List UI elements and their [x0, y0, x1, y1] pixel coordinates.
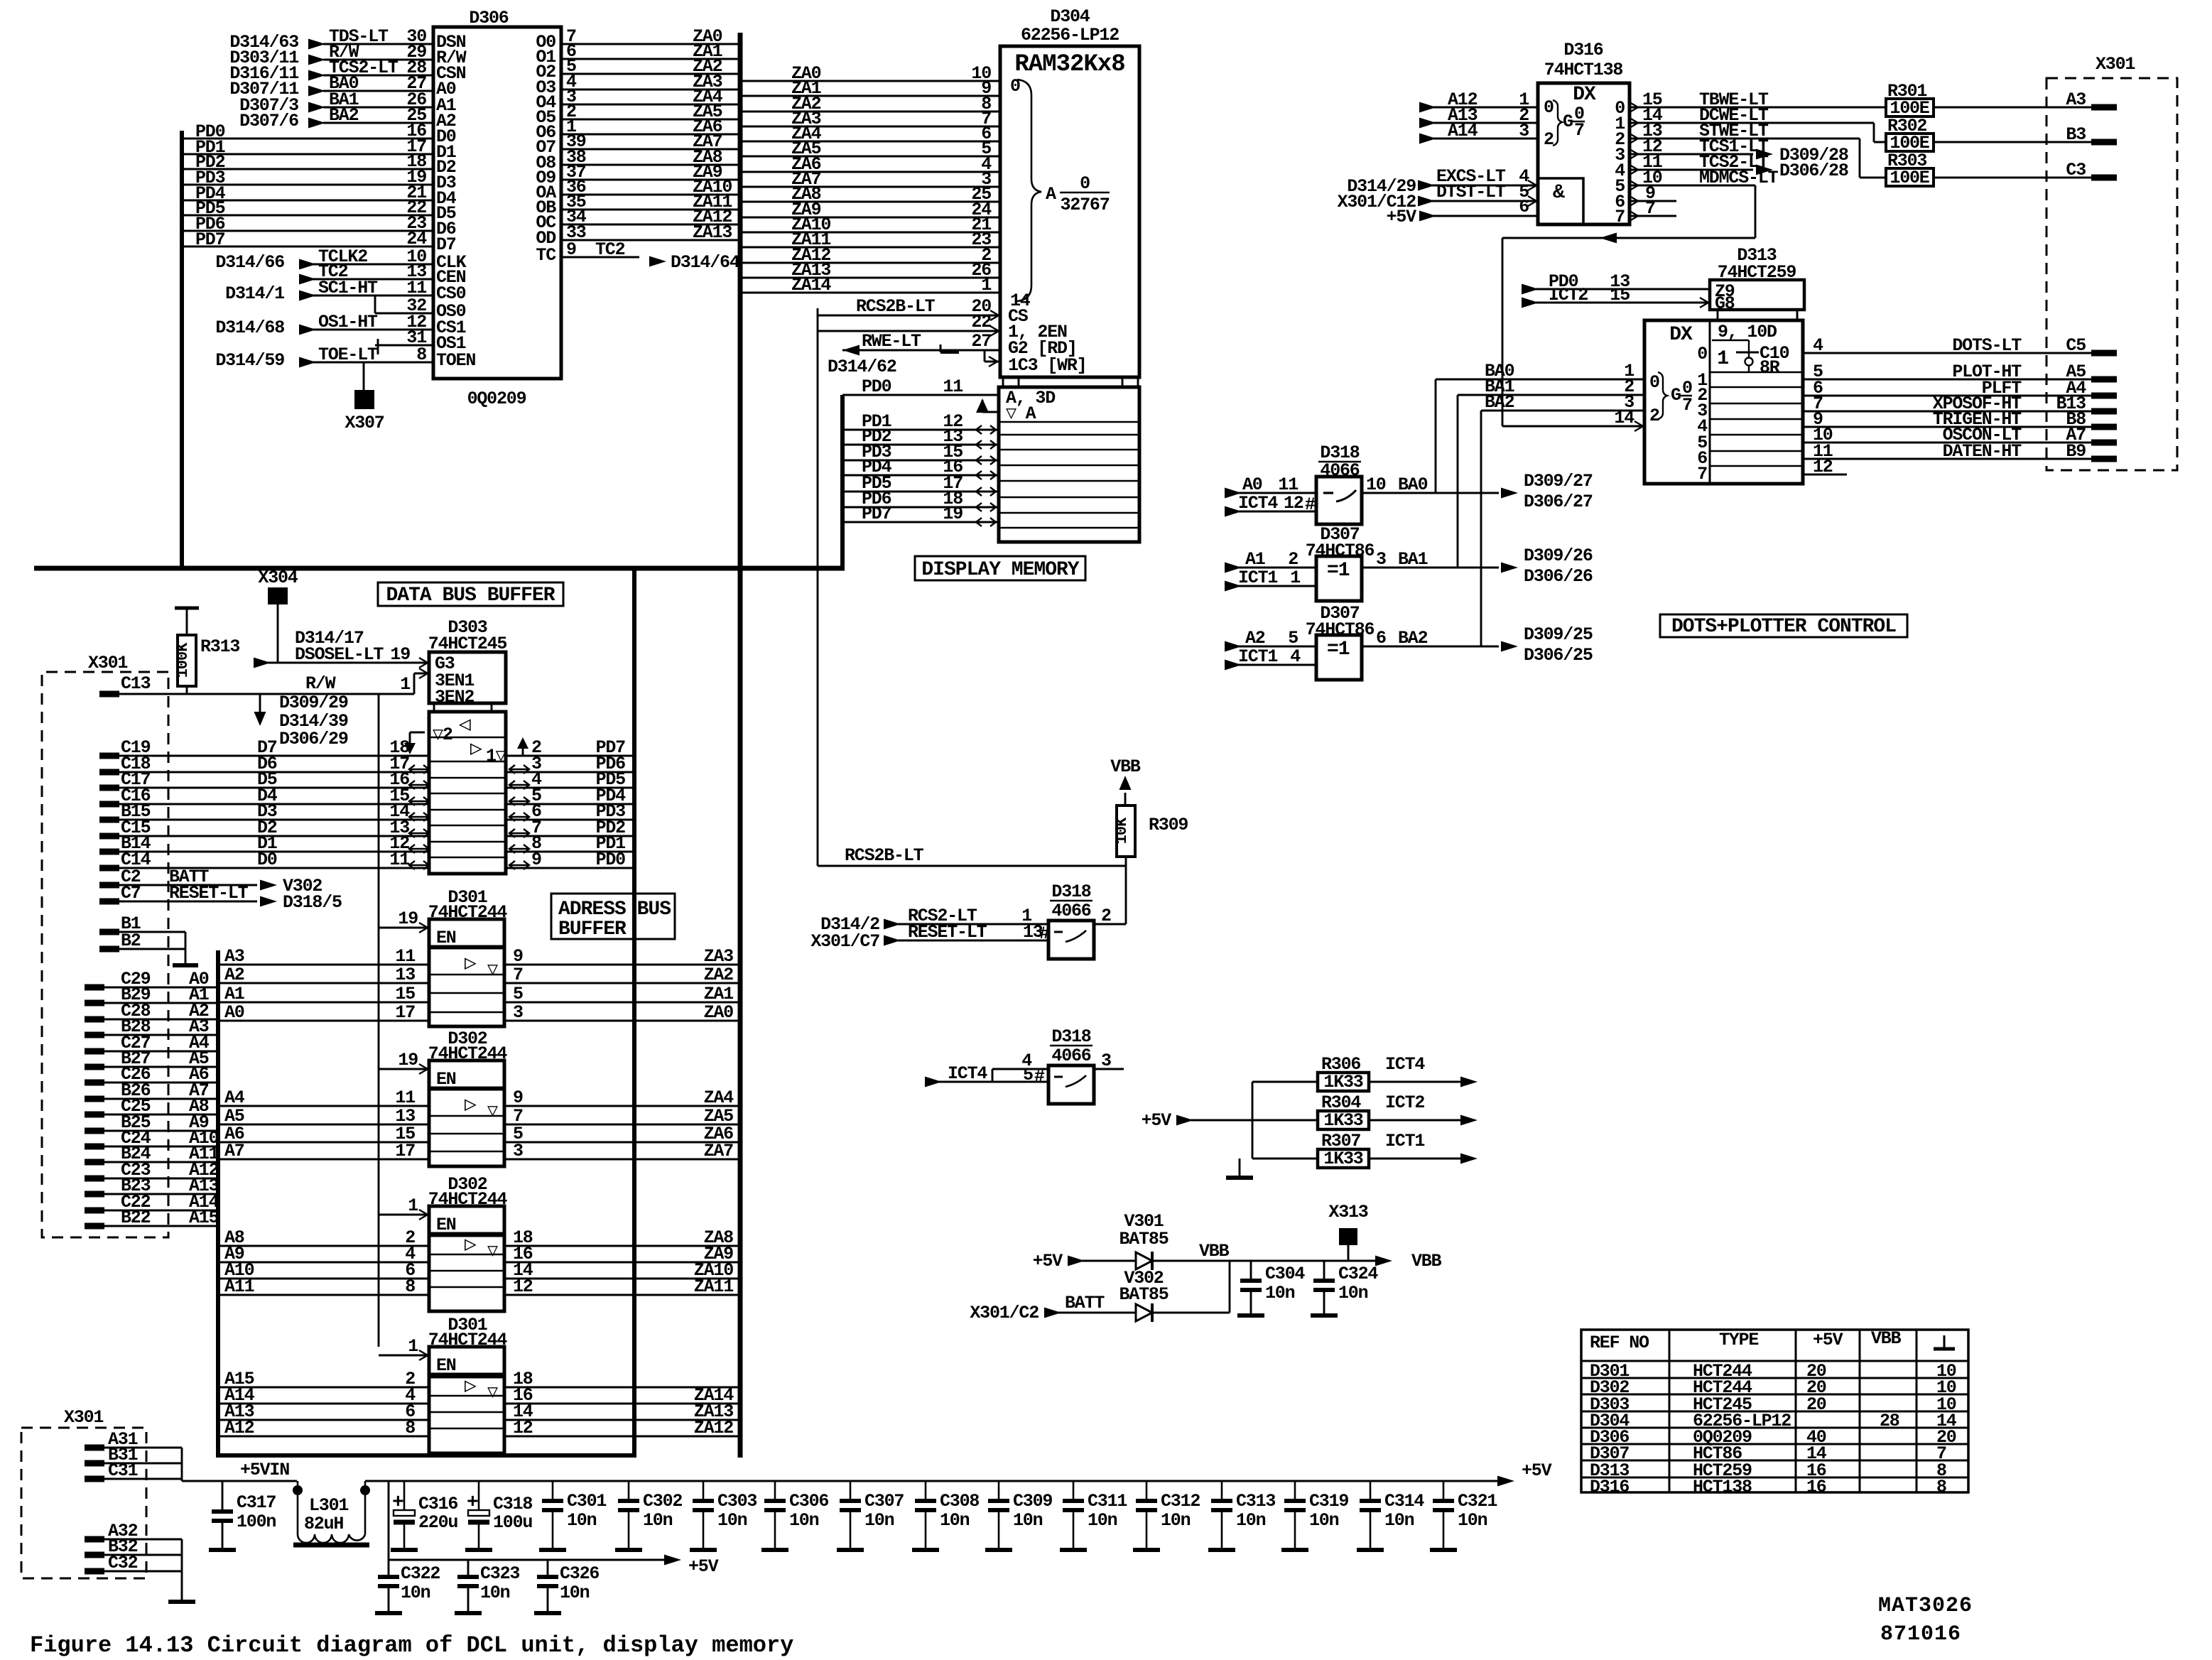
- svg-text:X304: X304: [258, 568, 298, 588]
- svg-text:D309/25: D309/25: [1524, 624, 1593, 645]
- svg-text:D309/27: D309/27: [1524, 471, 1593, 492]
- wire OS1 to D306 pin 31 (OS1): [375, 327, 466, 354]
- svg-text:D306/29: D306/29: [279, 729, 348, 749]
- connector pin X301/C26 (A6): [85, 1064, 218, 1085]
- svg-text:A1: A1: [1245, 549, 1265, 570]
- wire BA1 to D306 pin 26 (A1): [239, 89, 456, 116]
- wire EXCS-LT to D316 pin 4: [1347, 166, 1538, 197]
- svg-text:A7: A7: [224, 1141, 244, 1161]
- svg-text:7: 7: [1615, 207, 1625, 227]
- svg-text:C326: C326: [560, 1563, 599, 1584]
- D304 address brace and range 0..32767: [1010, 76, 1110, 311]
- wire A2 to D301 pin 13 -> ZA2: [218, 965, 740, 985]
- svg-text:10n: 10n: [1265, 1283, 1295, 1303]
- svg-text:VBB: VBB: [1110, 756, 1141, 777]
- D304 PD0 address-clock arrow: [976, 398, 999, 413]
- svg-text:7: 7: [1697, 464, 1707, 484]
- svg-text:DX: DX: [1669, 324, 1693, 346]
- svg-text:ZA4: ZA4: [704, 1087, 734, 1108]
- svg-text:Figure 14.13 Circuit diagram o: Figure 14.13 Circuit diagram of DCL unit…: [30, 1632, 793, 1659]
- wire A6 to D302 pin 15 -> ZA6: [218, 1124, 740, 1144]
- svg-text:BA0: BA0: [1398, 474, 1428, 495]
- svg-text:=1: =1: [1327, 560, 1350, 582]
- wire ZA9 from D306 pin 37 (O9): [536, 162, 740, 188]
- svg-text:L301: L301: [309, 1495, 348, 1516]
- wire PD3 to D306 pin 19 (D3): [182, 167, 456, 193]
- svg-text:X301/C2: X301/C2: [970, 1303, 1039, 1323]
- svg-text:ICT4: ICT4: [948, 1063, 987, 1084]
- wire TOE-LT to D306 pin 8 (TOEN): [215, 345, 475, 371]
- svg-text:62256-LP12: 62256-LP12: [1021, 25, 1119, 45]
- wire TBWE-LT D316 pin 15 to R301: [1630, 89, 1886, 112]
- connector X301 (top right, dashed): [2046, 54, 2177, 470]
- wire to D304 pin 22 (1,2EN): [818, 312, 1067, 342]
- svg-text:D306/27: D306/27: [1524, 492, 1593, 512]
- svg-text:1: 1: [408, 1195, 418, 1216]
- svg-text:3: 3: [513, 1141, 523, 1161]
- connector pin X301/C32: [85, 1553, 182, 1573]
- svg-text:#: #: [1039, 923, 1050, 944]
- resistor R304 1K33: [1318, 1092, 1369, 1131]
- svg-text:▽: ▽: [487, 960, 498, 980]
- svg-text:1: 1: [1717, 348, 1728, 370]
- svg-text:A: A: [1046, 184, 1056, 205]
- svg-text:▽: ▽: [487, 1101, 498, 1122]
- svg-text:X301: X301: [64, 1407, 103, 1428]
- wire ZA7 to D304 pin 3: [740, 169, 1000, 190]
- capacitor C309 10n: [985, 1481, 1052, 1550]
- resistor R302 100E: [1886, 116, 1934, 153]
- connector pin X301/B13: [2056, 394, 2117, 414]
- wire R/W branch arrow down: [254, 693, 348, 749]
- svg-text:TOEN: TOEN: [436, 350, 475, 371]
- svg-text:RCS2B-LT: RCS2B-LT: [845, 845, 924, 866]
- svg-text:A14: A14: [1448, 121, 1478, 141]
- svg-text:▷: ▷: [465, 953, 477, 975]
- capacitor C323 10n: [455, 1560, 519, 1613]
- svg-text:11: 11: [943, 376, 963, 397]
- svg-text:C312: C312: [1161, 1491, 1200, 1512]
- svg-text:15: 15: [395, 984, 415, 1004]
- svg-text:▽: ▽: [487, 1241, 498, 1262]
- wire TRIGEN-HT D313 pin 9 to X301/B8: [1803, 409, 2091, 430]
- wire ZA1 to D304 pin 9: [740, 78, 1000, 99]
- wire R302 to X301 pin B3: [1934, 141, 2097, 143]
- svg-text:C306: C306: [789, 1491, 828, 1512]
- svg-text:A0: A0: [1242, 474, 1262, 495]
- svg-text:A0: A0: [224, 1002, 244, 1023]
- svg-text:D309/29: D309/29: [279, 693, 348, 713]
- svg-text:D309/26: D309/26: [1524, 546, 1593, 566]
- svg-text:MDMCS-LT: MDMCS-LT: [1699, 168, 1779, 188]
- wire TCS1-LT D316 pin 12 to D309/28: [1630, 136, 1848, 166]
- svg-text:#: #: [1305, 494, 1316, 515]
- wire A1 to D301 pin 15 -> ZA1: [218, 984, 740, 1004]
- svg-text:19: 19: [398, 908, 418, 929]
- wire D2/PD2 through D303 pins 13/7 from X301/C15: [99, 818, 634, 838]
- svg-text:ICT4: ICT4: [1385, 1054, 1425, 1075]
- svg-text:X301/C7: X301/C7: [810, 931, 879, 952]
- wire A12 to D316 pin 1: [1419, 89, 1538, 113]
- svg-text:11: 11: [1278, 474, 1298, 495]
- svg-text:D306/25: D306/25: [1524, 645, 1593, 666]
- svg-text:D304: D304: [1050, 6, 1090, 27]
- connector pin X301/B26 (A7): [85, 1080, 218, 1101]
- svg-text:◁: ◁: [458, 715, 471, 737]
- analog switch D318 4066 (BA0): [1316, 443, 1362, 524]
- wire +5V sub-rail: [389, 1481, 719, 1577]
- bus horizontal bottom link: [218, 1453, 636, 1458]
- figure caption: [30, 1632, 793, 1659]
- wire ZA3 from D306 pin 4 (O3): [536, 72, 740, 98]
- svg-text:REF NO: REF NO: [1590, 1333, 1649, 1353]
- svg-text:12: 12: [1284, 493, 1303, 514]
- wire +5V to V301: [1033, 1251, 1136, 1271]
- IC D303 74HCT245 control box: [428, 617, 507, 712]
- wire A15 to D301 pin 2 -> bus: [218, 1369, 740, 1389]
- IC D304 62256-LP12 RAM32Kx8 box: [1000, 6, 1139, 377]
- diode V302 BAT85: [1119, 1268, 1168, 1322]
- wire A10 to D302 pin 6 -> ZA10: [218, 1260, 740, 1281]
- capacitor C324 10n: [1311, 1261, 1378, 1315]
- wire BA1 to D313 pin 2: [1458, 376, 1644, 397]
- svg-text:ZA3: ZA3: [704, 946, 734, 967]
- wire TCS2-LT to D306 pin 28 (CSN): [229, 58, 465, 84]
- wire ZA3 to D304 pin 7: [740, 109, 1000, 129]
- svg-text:13: 13: [395, 965, 415, 985]
- wire tie CS1-OS1: [377, 339, 379, 354]
- wire D5/PD5 through D303 pins 16/4 from X301/C17: [99, 769, 634, 790]
- svg-text:D318: D318: [1051, 881, 1090, 902]
- svg-text:19: 19: [398, 1050, 418, 1070]
- svg-text:10n: 10n: [1384, 1510, 1414, 1531]
- svg-text:10n: 10n: [717, 1510, 747, 1531]
- capacitor C302 10n: [615, 1481, 682, 1550]
- wire BA2 from D307 pin 6: [1362, 411, 1593, 666]
- IC D302 74HCT244: [428, 1029, 508, 1166]
- wire ZA10 from D306 pin 36 (OA): [536, 177, 740, 203]
- svg-text:RESET-LT: RESET-LT: [908, 922, 987, 943]
- drawing number MAT3026 871016: [1878, 1594, 1973, 1647]
- test point X313: [1328, 1202, 1367, 1261]
- wire A12 to D301 pin 8 -> ZA12: [218, 1418, 740, 1438]
- svg-text:TC: TC: [536, 245, 556, 266]
- svg-text:C311: C311: [1088, 1491, 1127, 1512]
- svg-text:8: 8: [416, 345, 426, 365]
- svg-text:10n: 10n: [401, 1583, 430, 1603]
- svg-text:PD0: PD0: [862, 376, 891, 397]
- svg-text:D318/5: D318/5: [283, 892, 342, 913]
- wire A14 to D316 pin 3: [1419, 121, 1538, 144]
- wire R303 to X301 pin C3: [1934, 177, 2097, 179]
- svg-text:D316: D316: [1563, 40, 1603, 60]
- wire ZA2 from D306 pin 5 (O2): [536, 56, 740, 82]
- connector pin X301/B27 (A5): [85, 1048, 218, 1069]
- svg-text:A4: A4: [224, 1087, 245, 1108]
- svg-text:▽ A: ▽ A: [1006, 403, 1036, 424]
- svg-text:▷: ▷: [465, 1376, 477, 1398]
- svg-text:DX: DX: [1573, 84, 1596, 106]
- svg-text:ZA1: ZA1: [704, 984, 734, 1004]
- svg-text:0: 0: [1080, 173, 1090, 194]
- svg-text:7: 7: [1682, 395, 1692, 416]
- wire +5V to R304/R306/R307: [1142, 1082, 1318, 1159]
- svg-text:7: 7: [513, 965, 523, 985]
- svg-text:10K: 10K: [1113, 817, 1131, 844]
- capacitor C322 10n: [375, 1560, 440, 1613]
- svg-text:D0: D0: [257, 850, 277, 870]
- capacitor C314 10n: [1357, 1481, 1424, 1550]
- svg-text:A12: A12: [224, 1418, 254, 1438]
- wire TCLK2 to D306 pin 10 (CLK): [215, 246, 466, 273]
- svg-text:9: 9: [513, 946, 523, 967]
- bus PD horizontal: [34, 566, 845, 571]
- wire tie CS0-OS0: [374, 295, 376, 313]
- connector pin X301/C22 (A14): [85, 1192, 219, 1213]
- D313 select brace G 0/7: [1614, 372, 1692, 431]
- wire TC2 from D306 pin 9 (TC) to D314/64: [536, 239, 739, 273]
- svg-text:A15: A15: [189, 1208, 219, 1228]
- connector pin X301/B29 (A1): [85, 984, 218, 1005]
- wire PD2 to D304 pin 13: [842, 426, 999, 449]
- svg-text:BUFFER: BUFFER: [558, 918, 627, 940]
- svg-text:100E: 100E: [1890, 168, 1929, 188]
- svg-text:BA2: BA2: [329, 105, 359, 126]
- wire PD2 to D306 pin 18 (D2): [182, 151, 456, 178]
- svg-text:C304: C304: [1265, 1264, 1305, 1284]
- svg-text:ZA14: ZA14: [791, 275, 831, 295]
- IC D302 74HCT244: [428, 1174, 508, 1311]
- svg-text:VBB: VBB: [1199, 1241, 1230, 1262]
- connector pin X301/C23 (A12): [85, 1160, 219, 1181]
- IC D316 74HCT138 box: [1538, 40, 1630, 224]
- wire DSOSEL-LT to D303 pin 19: [254, 628, 429, 668]
- D304 data register box: [999, 387, 1139, 542]
- svg-text:+5V: +5V: [1033, 1251, 1063, 1271]
- bus PD vertical (right of RAM): [840, 395, 845, 570]
- wire ZA0 to D304 pin 10: [740, 63, 1000, 84]
- analog switch D318 4066 (RCS2): [1048, 881, 1094, 959]
- svg-text:8: 8: [1936, 1477, 1946, 1497]
- wire A0 to D301 pin 17 -> ZA0: [218, 1002, 740, 1023]
- test point X307: [345, 362, 384, 433]
- svg-text:HCT138: HCT138: [1693, 1477, 1752, 1497]
- connector pin X301/B22 (A15): [85, 1208, 219, 1228]
- D316 pin 7 stub: [1630, 198, 1676, 221]
- svg-text:R313: R313: [200, 636, 239, 657]
- svg-text:3: 3: [513, 1002, 523, 1023]
- wire ZA11 from D306 pin 35 (OB): [536, 192, 740, 218]
- svg-text:11: 11: [389, 850, 409, 870]
- wire X301 A32/B32/C32 to ground: [168, 1539, 195, 1602]
- svg-text:16: 16: [1806, 1477, 1826, 1497]
- svg-text:19: 19: [943, 504, 963, 524]
- wire EN to D302 pin 19: [379, 1050, 429, 1074]
- connector pin X301/C3: [2066, 160, 2117, 180]
- svg-text:C324: C324: [1338, 1264, 1378, 1284]
- svg-text:10n: 10n: [480, 1583, 510, 1603]
- label DISPLAY MEMORY: [915, 556, 1085, 581]
- svg-text:EN: EN: [436, 1069, 456, 1090]
- capacitor C307 10n: [837, 1481, 904, 1550]
- wire RCS2-LT to D318 pin 1: [820, 906, 1048, 935]
- svg-text:D306/26: D306/26: [1524, 566, 1593, 587]
- svg-text:D307/6: D307/6: [239, 111, 298, 131]
- wire BA0 from D318 pin 10: [1362, 379, 1593, 512]
- wire RESET-LT X301/C7 to D318/5: [99, 883, 342, 913]
- svg-text:7: 7: [1574, 120, 1584, 141]
- svg-text:R309: R309: [1149, 815, 1188, 835]
- resistor R306 1K33: [1318, 1054, 1369, 1092]
- svg-text:D314/68: D314/68: [215, 318, 284, 338]
- svg-text:+5V: +5V: [688, 1556, 719, 1577]
- wire PD4 to D304 pin 16: [842, 457, 999, 479]
- wire ZA11 to D304 pin 23: [740, 229, 1000, 250]
- wire ZA7 from D306 pin 39 (O7): [536, 131, 740, 158]
- svg-text:0: 0: [1544, 97, 1554, 118]
- svg-text:BA1: BA1: [1398, 549, 1428, 570]
- svg-text:BAT85: BAT85: [1119, 1284, 1168, 1305]
- svg-text:10n: 10n: [1338, 1283, 1368, 1303]
- wire PD7 to D304 pin 19: [842, 504, 999, 526]
- wire ICT4 from R306: [1369, 1054, 1478, 1087]
- wire ZA0 from D306 pin 7 (O0): [536, 26, 740, 53]
- wire A1 to D307 pin 2: [1225, 549, 1316, 573]
- svg-text:C303: C303: [717, 1491, 757, 1512]
- label DOTS+PLOTTER CONTROL: [1660, 614, 1907, 638]
- svg-text:+5V: +5V: [1142, 1110, 1172, 1131]
- power VBB arrow: [1110, 756, 1141, 805]
- svg-text:11: 11: [395, 946, 415, 967]
- wire TCS2-LT D316 pin 11 to D306/28: [1630, 152, 1848, 181]
- wire DOTS-LT D313 pin 4 to X301/C5: [1803, 335, 2091, 356]
- wire A4 to D302 pin 11 -> ZA4: [218, 1087, 740, 1108]
- wire OS0 to D306 pin 32 (OS0): [375, 295, 466, 322]
- svg-text:5: 5: [1023, 1065, 1033, 1085]
- connector pin X301/C31: [85, 1460, 182, 1481]
- svg-text:8: 8: [405, 1418, 415, 1438]
- svg-text:0: 0: [1649, 372, 1659, 393]
- wire ZA8 to D304 pin 25: [740, 184, 1000, 205]
- svg-text:D306: D306: [469, 8, 508, 28]
- svg-text:10n: 10n: [567, 1510, 597, 1531]
- wire D318 pin 3 output stub: [1094, 1051, 1124, 1071]
- svg-text:DATA BUS BUFFER: DATA BUS BUFFER: [386, 585, 555, 607]
- label ADRESS BUS BUFFER: [551, 894, 675, 940]
- svg-text:+5V: +5V: [1813, 1330, 1843, 1350]
- wire A13 to D316 pin 2: [1419, 105, 1538, 129]
- svg-text:5: 5: [513, 984, 523, 1004]
- svg-text:11: 11: [395, 1087, 415, 1108]
- svg-text:32767: 32767: [1060, 195, 1109, 215]
- svg-text:2: 2: [1544, 129, 1554, 150]
- capacitor C326 10n: [534, 1560, 599, 1613]
- svg-text:ADRESS BUS: ADRESS BUS: [558, 899, 671, 921]
- connector pin X301/C29 (A0): [85, 969, 218, 989]
- wire ICT2 to D313 pin 15: [1522, 285, 1710, 308]
- wire ZA8 from D306 pin 38 (O8): [536, 147, 740, 173]
- svg-text:BAT85: BAT85: [1119, 1229, 1168, 1249]
- wire TC2 to D306 pin 13 (CEN): [299, 261, 466, 288]
- svg-text:DOTS-LT: DOTS-LT: [1952, 335, 2022, 356]
- wire ZA14 to D304 pin 1: [740, 275, 1000, 295]
- svg-text:▷: ▷: [465, 1235, 477, 1257]
- svg-text:100n: 100n: [237, 1512, 276, 1532]
- svg-text:9, 10D: 9, 10D: [1718, 322, 1777, 342]
- D316 output row markers 0-7: [1615, 98, 1625, 227]
- wire MDMCS-LT D316 pin 10 to D313 pin 14: [1502, 168, 1779, 426]
- svg-text:D316: D316: [1590, 1477, 1629, 1497]
- wire XPOSOF-HT D313 pin 7 to X301/B13: [1803, 394, 2091, 414]
- svg-text:D314/62: D314/62: [828, 357, 896, 377]
- svg-text:DATEN-HT: DATEN-HT: [1943, 441, 2022, 462]
- wire STWE-LT D316 pin 13 to R303: [1630, 121, 1886, 178]
- wire TDS-LT to D306 pin 30 (DSN): [229, 26, 465, 53]
- svg-text:ICT1: ICT1: [1238, 568, 1277, 588]
- wire D318 pin 2 output: [1094, 906, 1126, 926]
- svg-text:10n: 10n: [560, 1583, 590, 1603]
- wire PD5 to D304 pin 17: [842, 473, 999, 496]
- svg-text:ICT4: ICT4: [1238, 493, 1278, 514]
- svg-text:100u: 100u: [493, 1512, 532, 1533]
- wire RCS2B-LT to D304 pin 20 (CS): [818, 296, 1029, 327]
- connector pin X301/C27 (A4): [85, 1033, 218, 1053]
- test point X304: [258, 568, 298, 663]
- XOR gate D307 74HCT86 (BA2): [1306, 603, 1375, 680]
- svg-text:#: #: [1034, 1066, 1045, 1087]
- wire ICT1 from R307: [1369, 1131, 1478, 1164]
- wire to D304 1C3[WR] pin: [985, 350, 1086, 376]
- svg-text:0: 0: [1697, 344, 1707, 364]
- connector pin X301/A4: [2066, 378, 2117, 398]
- connector pin X301/B28 (A3): [85, 1016, 218, 1037]
- connector pin X301/A7: [2066, 425, 2117, 445]
- svg-text:MAT3026: MAT3026: [1878, 1594, 1973, 1618]
- svg-text:28: 28: [1880, 1411, 1899, 1431]
- svg-text:ICT1: ICT1: [1238, 646, 1277, 667]
- svg-text:22: 22: [971, 312, 991, 332]
- svg-text:0Q0209: 0Q0209: [467, 389, 526, 409]
- capacitor C316 220u: [391, 1481, 457, 1550]
- svg-text:C321: C321: [1458, 1491, 1497, 1512]
- svg-text:C323: C323: [480, 1563, 519, 1584]
- wire PLFT D313 pin 6 to X301/A4: [1803, 378, 2091, 398]
- label DATA BUS BUFFER: [378, 582, 563, 607]
- wire DATEN-HT D313 pin 11 to X301/B9: [1803, 441, 2091, 462]
- wire RESET-LT to D318 pin 13: [810, 922, 1050, 952]
- wire R/W to D306 pin 29 (R/W): [229, 42, 466, 68]
- svg-text:SC1-HT: SC1-HT: [318, 278, 378, 298]
- svg-text:74HCT138: 74HCT138: [1544, 60, 1623, 80]
- svg-text:C322: C322: [401, 1563, 440, 1584]
- svg-text:12: 12: [513, 1276, 533, 1297]
- bus PD vertical (left of D306): [180, 131, 184, 568]
- wire PD7 to D306 pin 24 (D7): [182, 229, 456, 255]
- IC D313 74HCT259 control box: [1710, 245, 1804, 320]
- wire BA0 to D313 pin 1: [1436, 361, 1644, 381]
- svg-text:PD0: PD0: [596, 850, 626, 870]
- svg-text:17: 17: [395, 1002, 415, 1023]
- svg-text:8: 8: [405, 1276, 415, 1297]
- wire RWE-LT / D314/62 to D304 pin 27 (G2 RD): [828, 331, 1077, 377]
- wire ZA13 to D304 pin 26: [740, 260, 1000, 281]
- wire ICT4 to D318 pins 4/5: [925, 1051, 1048, 1087]
- wire D1/PD1 through D303 pins 12/8 from X301/B14: [99, 833, 634, 854]
- svg-text:VBB: VBB: [1411, 1251, 1442, 1271]
- wire D3/PD3 through D303 pins 14/6 from X301/B15: [99, 801, 634, 822]
- wire X301/B1 B2 to ground: [99, 913, 198, 965]
- wire PD0 to D304 pin 11: [842, 376, 999, 397]
